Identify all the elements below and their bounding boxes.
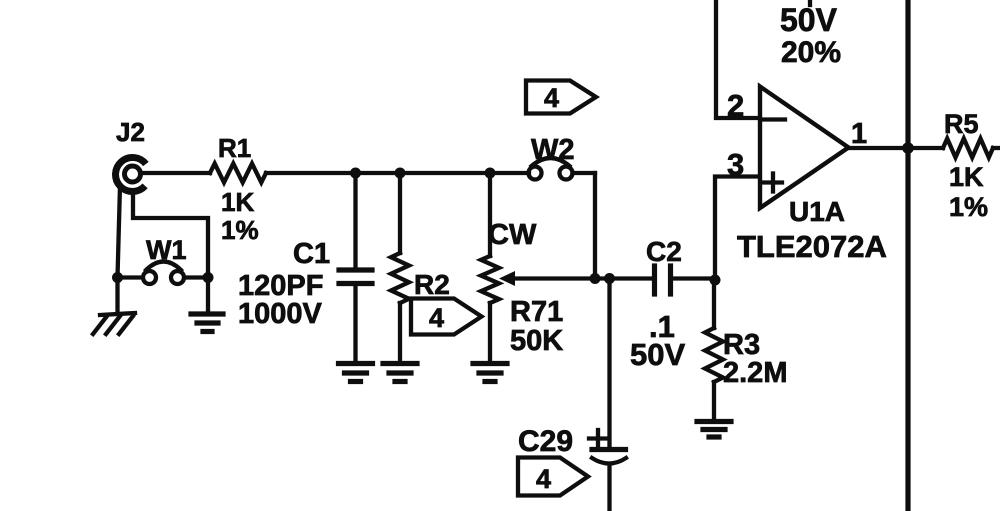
wire W1 left to chassis ground xyxy=(115,278,119,315)
connector J2 xyxy=(116,157,146,191)
wire R1 to W2 node xyxy=(266,171,529,175)
node pin3 junction xyxy=(710,275,721,286)
wire op-amp output xyxy=(848,146,908,150)
ground under R3 xyxy=(697,422,731,438)
svg-text:W2: W2 xyxy=(531,134,575,166)
resistor R1 xyxy=(210,164,266,183)
wire J2 shell down to W1 left xyxy=(118,186,121,277)
svg-text:3: 3 xyxy=(727,147,744,182)
C29 plus sign xyxy=(589,430,606,447)
wire R2 top lead xyxy=(398,173,402,253)
wire C2 to pin3 node xyxy=(672,276,715,280)
capacitor C2 xyxy=(655,266,671,294)
svg-text:U1A: U1A xyxy=(789,196,845,227)
node W1 left junction xyxy=(112,272,123,283)
wire C1 top lead xyxy=(353,173,357,268)
svg-text:1%: 1% xyxy=(221,215,259,245)
wire J2 pin to R1 xyxy=(141,171,210,175)
wire C1 bottom lead xyxy=(353,284,357,363)
ground under C1 xyxy=(339,364,373,382)
potentiometer R71 xyxy=(481,256,499,303)
svg-text:R2: R2 xyxy=(414,269,450,300)
svg-text:2.2M: 2.2M xyxy=(723,357,787,389)
tag 4 flag near C29 xyxy=(518,458,588,496)
node C29 branch junction xyxy=(604,273,615,284)
resistor R2 xyxy=(391,253,409,303)
svg-text:C29: C29 xyxy=(518,425,573,458)
wire R5 right xyxy=(993,146,1000,150)
ground under R71 xyxy=(473,364,507,382)
svg-text:50V: 50V xyxy=(630,337,685,372)
tag 4 flag near R2 xyxy=(411,299,482,335)
svg-text:1000V: 1000V xyxy=(238,298,323,330)
R71 wiper arrow xyxy=(499,271,594,286)
node R2 top junction xyxy=(395,168,406,179)
svg-text:C2: C2 xyxy=(646,236,682,267)
node output junction xyxy=(902,142,914,154)
svg-text:1K: 1K xyxy=(221,187,254,217)
capacitor C29 polarized xyxy=(592,450,626,511)
svg-text:20%: 20% xyxy=(781,36,841,69)
wire J2 shell L-path to W1 right xyxy=(133,191,208,277)
wire R71 top lead xyxy=(488,173,492,256)
svg-text:1: 1 xyxy=(851,118,867,150)
svg-text:W1: W1 xyxy=(146,235,187,265)
tag 4 flag above W2 xyxy=(526,81,596,114)
wire W1 right to ground xyxy=(206,278,210,312)
wire wiper node to C2 xyxy=(595,276,652,280)
wire pin3 vertical xyxy=(715,177,760,281)
svg-text:C1: C1 xyxy=(293,238,330,270)
wire W2 down to wiper node xyxy=(593,173,597,279)
node W1 right junction xyxy=(203,272,214,283)
svg-text:CW: CW xyxy=(488,219,537,251)
node C1 top junction xyxy=(350,168,361,179)
ground under R2 xyxy=(383,364,417,382)
wire R3 bottom lead xyxy=(712,382,716,420)
wire pin2 vertical from top xyxy=(716,0,760,118)
node wiper junction xyxy=(590,273,601,284)
wire R2 bottom lead xyxy=(398,303,402,362)
resistor R5 xyxy=(943,139,993,158)
wire right bus vertical xyxy=(905,0,910,511)
wire C29 branch down xyxy=(607,279,611,450)
node R71 top junction xyxy=(485,168,496,179)
svg-text:1%: 1% xyxy=(949,192,988,222)
op-amp U1A xyxy=(760,87,849,209)
wire R3 top lead xyxy=(712,280,716,328)
chassis ground xyxy=(93,313,135,334)
svg-text:4: 4 xyxy=(544,83,559,113)
wire R71 bottom lead xyxy=(488,303,492,362)
jumper W1 xyxy=(118,262,209,285)
ground under W1 xyxy=(191,314,223,332)
svg-text:1K: 1K xyxy=(949,162,984,192)
svg-text:R71: R71 xyxy=(510,296,563,328)
svg-text:50K: 50K xyxy=(510,325,563,357)
svg-text:R5: R5 xyxy=(944,109,979,139)
svg-text:2: 2 xyxy=(727,88,744,123)
svg-text:4: 4 xyxy=(536,464,551,494)
svg-text:50V: 50V xyxy=(780,2,838,38)
svg-text:R1: R1 xyxy=(218,133,251,163)
capacitor C1 xyxy=(339,270,372,284)
wire output to R5 xyxy=(908,146,943,150)
svg-text:TLE2072A: TLE2072A xyxy=(737,229,887,264)
resistor R3 xyxy=(705,328,723,382)
svg-text:J2: J2 xyxy=(116,117,145,147)
jumper W2 xyxy=(529,158,596,180)
svg-text:4: 4 xyxy=(429,303,444,333)
wire stub top center xyxy=(808,0,812,5)
